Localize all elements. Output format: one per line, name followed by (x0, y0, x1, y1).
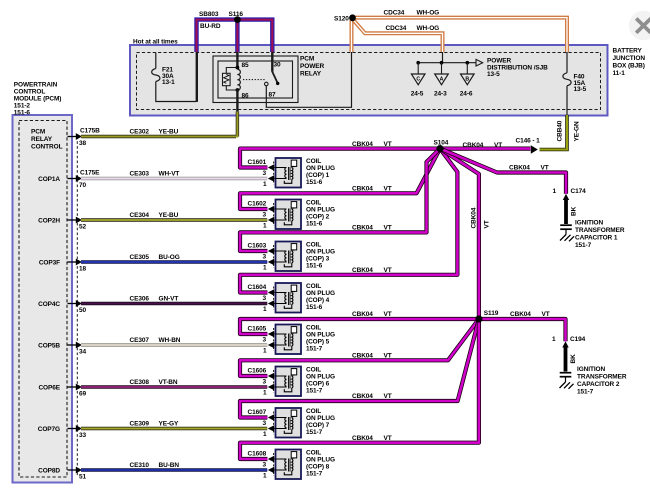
svg-text:CE302: CE302 (130, 129, 150, 136)
label COIL ON PLUG (COP) 7 151-7 (306, 408, 335, 436)
connector C146-1 (531, 145, 538, 154)
svg-text:69: 69 (79, 391, 87, 398)
svg-text:VT: VT (384, 267, 392, 274)
svg-text:1: 1 (552, 188, 556, 195)
PCM pin 51 node COP8D (38, 467, 86, 481)
svg-text:CE304: CE304 (130, 212, 150, 219)
svg-text:BATTERY: BATTERY (613, 48, 643, 55)
wire BK (C194) (564, 347, 568, 372)
label CE304 YE-BU (130, 212, 179, 219)
relay K1 PCM POWER RELAY box (213, 56, 298, 103)
svg-text:52: 52 (79, 224, 87, 231)
svg-text:1: 1 (263, 223, 267, 230)
svg-text:3: 3 (263, 462, 267, 469)
connector C194 (562, 341, 568, 347)
svg-text:3: 3 (263, 254, 267, 261)
label CBK04 VT (COP4 branch) (352, 267, 392, 274)
svg-text:BU-BN: BU-BN (159, 462, 180, 469)
svg-text:C174: C174 (571, 188, 587, 195)
svg-text:IGNITION: IGNITION (577, 366, 605, 373)
svg-text:(COP) 4: (COP) 4 (306, 297, 330, 304)
svg-text:VT-BN: VT-BN (159, 379, 178, 386)
svg-text:24-3: 24-3 (434, 91, 447, 98)
splice S116 (234, 16, 241, 23)
svg-text:CAPACITOR 1: CAPACITOR 1 (575, 235, 618, 242)
svg-text:3: 3 (263, 337, 267, 344)
PCM pin 33 node COP7G (38, 425, 87, 439)
svg-text:PCM: PCM (31, 129, 45, 136)
svg-text:(COP) 8: (COP) 8 (306, 464, 330, 471)
svg-text:151-6: 151-6 (306, 221, 323, 228)
wire CBK04 VT S119 to COP8 (240, 319, 479, 459)
connector C1608 (248, 451, 287, 480)
PCM pin 18 node COP3F (39, 259, 87, 273)
label CE309 YE-GY (130, 421, 179, 428)
svg-text:85: 85 (242, 62, 250, 69)
svg-text:COIL: COIL (306, 242, 321, 249)
svg-text:(COP) 2: (COP) 2 (306, 214, 330, 221)
svg-text:151-6: 151-6 (306, 263, 323, 270)
svg-text:C146 - 1: C146 - 1 (516, 137, 541, 144)
svg-text:24-5: 24-5 (411, 91, 424, 98)
connector C174 (563, 194, 569, 200)
connector C1606 (248, 368, 287, 397)
capacitor ignition transformer capacitor 2 (560, 373, 572, 382)
svg-text:CBK04: CBK04 (352, 186, 373, 193)
svg-text:C: C (416, 76, 420, 82)
svg-text:COP4C: COP4C (38, 301, 60, 308)
svg-text:COIL: COIL (306, 158, 321, 165)
svg-text:WH-BN: WH-BN (159, 337, 181, 344)
svg-text:C1603: C1603 (248, 243, 267, 250)
svg-text:1: 1 (263, 431, 267, 438)
svg-text:C175B: C175B (80, 128, 100, 135)
svg-text:COP7G: COP7G (38, 426, 60, 433)
label CBK04 VT (S104 to C146) (463, 142, 503, 149)
label CE306 GN-VT (130, 296, 179, 303)
svg-text:YE-GN: YE-GN (574, 121, 581, 141)
connector C175 boundary (dashed) (76, 137, 78, 478)
label COIL ON PLUG (COP) 4 151-6 (306, 283, 335, 311)
label POWERTRAIN CONTROL MODULE (PCM) 151-2 151-6 (14, 82, 62, 117)
svg-text:PCM: PCM (300, 55, 314, 62)
svg-text:POWERTRAIN: POWERTRAIN (14, 82, 58, 89)
PCM pin 34 node COP5B (38, 342, 86, 356)
svg-text:YE-GY: YE-GY (159, 421, 179, 428)
label IGNITION TRANSFORMER CAPACITOR 1 151-7 (575, 220, 625, 250)
wire CE309 YE-GY (81, 427, 267, 430)
svg-text:11-1: 11-1 (613, 70, 626, 77)
wire CBK04 VT S119 to COP5 (240, 319, 479, 334)
svg-text:3: 3 (263, 212, 267, 219)
svg-text:C194: C194 (570, 336, 586, 343)
wire F40 feed (in box) (566, 52, 568, 73)
svg-text:70: 70 (79, 182, 87, 189)
svg-text:(COP) 3: (COP) 3 (306, 256, 330, 263)
svg-text:30: 30 (274, 61, 282, 68)
svg-text:CE305: CE305 (130, 254, 150, 261)
svg-text:CE306: CE306 (130, 296, 150, 303)
svg-text:C1602: C1602 (248, 201, 267, 208)
wire S116 to relay pin 30 (in box) (271, 52, 273, 72)
svg-text:ON PLUG: ON PLUG (306, 249, 335, 256)
svg-text:MODULE (PCM): MODULE (PCM) (14, 96, 62, 103)
ignition coil COP 3 (276, 242, 302, 272)
svg-text:COP6E: COP6E (38, 384, 60, 391)
svg-text:C1606: C1606 (248, 368, 267, 375)
svg-text:CBK04: CBK04 (463, 142, 484, 149)
svg-text:BK: BK (570, 354, 577, 364)
svg-text:COIL: COIL (306, 283, 321, 290)
wire CDC34 WH-OG to F40 (352, 18, 568, 52)
label COIL ON PLUG (COP) 3 151-6 (306, 242, 335, 270)
label CBK04 VT (COP3 branch) (352, 225, 392, 232)
svg-text:33: 33 (79, 432, 87, 439)
svg-text:151-7: 151-7 (306, 429, 323, 436)
wire F40 to box edge (in box) (566, 86, 568, 115)
svg-text:POWER: POWER (300, 63, 324, 70)
fuse F21 (152, 69, 160, 82)
svg-text:151-7: 151-7 (577, 389, 594, 396)
svg-text:GN-VT: GN-VT (159, 296, 179, 303)
splice S119 (475, 315, 482, 322)
svg-text:BOX (BJB): BOX (BJB) (613, 63, 645, 70)
label CBK04 VT (COP1 branch) (352, 141, 392, 148)
svg-text:C1608: C1608 (248, 451, 267, 458)
svg-text:1: 1 (263, 348, 267, 355)
svg-text:(COP) 5: (COP) 5 (306, 339, 330, 346)
battery junction box (BJB) outline (130, 45, 608, 116)
label CBK04 VT (S104 to C174) (509, 165, 549, 172)
svg-text:3: 3 (263, 420, 267, 427)
wire CDC34 WH-OG to SJB distribution (353, 19, 443, 52)
svg-text:24-6: 24-6 (460, 91, 473, 98)
svg-text:CDC34: CDC34 (386, 25, 407, 32)
svg-text:151-6: 151-6 (306, 304, 323, 311)
wire CBK04 VT S119 to C194 (479, 319, 566, 341)
svg-text:ON PLUG: ON PLUG (306, 207, 335, 214)
svg-text:151-6: 151-6 (306, 179, 323, 186)
svg-text:ON PLUG: ON PLUG (306, 415, 335, 422)
svg-text:151-6: 151-6 (14, 110, 31, 117)
ignition coil COP 6 (276, 367, 302, 397)
PCM pin 69 node COP6E (38, 384, 86, 398)
svg-text:COP3F: COP3F (39, 259, 60, 266)
wire CBK04 VT S119 to COP7 (240, 319, 479, 418)
svg-text:COIL: COIL (306, 200, 321, 207)
wire F21 to S116 drop (in box) (156, 52, 197, 102)
wire SB803 BU-RD from F21 to relay (197, 20, 273, 52)
svg-text:WH-VT: WH-VT (159, 171, 180, 178)
connector C1602 (248, 201, 287, 230)
wire BK (C174) (564, 200, 568, 225)
wire CBK04 VT S119 to COP6 (240, 319, 479, 376)
ignition coil COP 4 (276, 283, 302, 313)
svg-text:1: 1 (552, 336, 556, 343)
svg-text:RELAY: RELAY (300, 70, 322, 77)
svg-text:CAPACITOR 2: CAPACITOR 2 (577, 381, 620, 388)
splice S104 (436, 145, 443, 152)
connector C1604 (248, 284, 287, 313)
svg-text:(COP) 1: (COP) 1 (306, 172, 330, 179)
svg-text:87: 87 (269, 91, 277, 98)
svg-text:VT: VT (384, 311, 392, 318)
svg-text:3: 3 (263, 170, 267, 177)
wire WH-OG into distribution line (in box) (442, 52, 444, 63)
svg-text:ON PLUG: ON PLUG (306, 290, 335, 297)
capacitor ignition transformer capacitor 1 (560, 225, 572, 234)
svg-text:CBK04: CBK04 (509, 165, 530, 172)
svg-text:CBK04: CBK04 (471, 207, 478, 228)
svg-text:CBK04: CBK04 (352, 267, 373, 274)
svg-text:VT: VT (542, 311, 550, 318)
wire CBK04 VT S104 to COP3 (240, 149, 440, 251)
label CBK04 VT (COP7 branch) (352, 393, 392, 400)
svg-text:VT: VT (384, 141, 392, 148)
label CBK04 VT (COP8 branch) (352, 435, 392, 442)
svg-text:S104: S104 (434, 140, 449, 147)
connector C1607 (248, 409, 287, 438)
svg-text:IGNITION: IGNITION (575, 220, 603, 227)
wire CE307 WH-BN (81, 343, 267, 346)
label COIL ON PLUG (COP) 5 151-7 (306, 325, 335, 353)
wire CBK04 VT S104 to COP2 (240, 149, 440, 209)
svg-text:151-7: 151-7 (306, 471, 323, 478)
svg-text:YE-BU: YE-BU (159, 129, 179, 136)
label COIL ON PLUG (COP) 8 151-7 (306, 450, 335, 478)
wire CE302 YE-BU (81, 112, 237, 138)
label COIL ON PLUG (COP) 2 151-6 (306, 200, 335, 228)
svg-text:VT: VT (384, 225, 392, 232)
PCM pin 50 node COP4C (38, 300, 86, 314)
svg-text:CBK04: CBK04 (352, 225, 373, 232)
svg-text:1: 1 (263, 181, 267, 188)
svg-text:13-5: 13-5 (487, 71, 500, 78)
svg-text:RELAY: RELAY (31, 136, 53, 143)
wire CE308 VT-BN (81, 385, 267, 388)
svg-text:ON PLUG: ON PLUG (306, 457, 335, 464)
label CBK04 VT (S119 to C194) (510, 311, 550, 318)
ignition coil COP 7 (276, 408, 302, 438)
svg-text:(COP) 6: (COP) 6 (306, 381, 330, 388)
PCM pin 70 node COP1A (38, 170, 100, 190)
svg-text:CBK04: CBK04 (352, 141, 373, 148)
label F21 30A 13-1 (162, 67, 175, 87)
svg-text:CBB40: CBB40 (557, 120, 564, 141)
label CE308 VT-BN (130, 379, 178, 386)
label CE305 BU-OG (130, 254, 180, 261)
svg-text:VT: VT (541, 165, 549, 172)
ignition coil COP 1 (276, 158, 302, 188)
svg-text:34: 34 (79, 349, 87, 356)
wire WH-OG relay 87 up to S120 (350, 18, 354, 52)
wire CBK04 VT S104 to COP4 (240, 149, 457, 293)
wire relay 86 to box edge (in box) (236, 90, 238, 112)
svg-text:CBK04: CBK04 (352, 393, 373, 400)
svg-text:BK: BK (571, 206, 578, 216)
svg-text:TRANSFORMER: TRANSFORMER (575, 227, 625, 234)
relay coil (pins 85-86) (236, 66, 241, 92)
svg-text:COIL: COIL (306, 450, 321, 457)
label: BATTERY JUNCTION BOX (BJB) 11-1 (613, 48, 646, 78)
svg-text:C1604: C1604 (248, 284, 267, 291)
PCM module box (13, 115, 73, 483)
label CE307 WH-BN (130, 337, 181, 344)
ground (capacitor 1) (560, 235, 574, 242)
svg-text:BU-RD: BU-RD (200, 23, 221, 30)
svg-text:COP1A: COP1A (38, 176, 60, 183)
label IGNITION TRANSFORMER CAPACITOR 2 151-7 (577, 366, 627, 396)
svg-text:51: 51 (79, 474, 87, 481)
svg-text:CE307: CE307 (130, 337, 150, 344)
label PCM RELAY CONTROL (31, 129, 63, 151)
wire CE305 BU-OG (81, 260, 267, 263)
svg-text:C175E: C175E (80, 170, 100, 177)
wire CBB40 YE-GN F40 to C146 (540, 115, 568, 150)
label F40 15A 13-5 (574, 74, 587, 94)
svg-text:C1605: C1605 (248, 326, 267, 333)
svg-text:VT: VT (494, 142, 502, 149)
svg-text:C1607: C1607 (248, 409, 267, 416)
label COIL ON PLUG (COP) 1 151-6 (306, 158, 335, 186)
splice S120 (349, 14, 356, 21)
svg-text:38: 38 (79, 140, 87, 147)
svg-text:151-7: 151-7 (306, 388, 323, 395)
svg-text:CBK04: CBK04 (510, 311, 531, 318)
svg-text:CE303: CE303 (130, 171, 150, 178)
svg-text:COIL: COIL (306, 408, 321, 415)
wire CBK04 VT S104 to COP1 (240, 149, 440, 168)
svg-text:B: B (465, 76, 469, 82)
svg-text:S119: S119 (484, 310, 499, 317)
ignition coil COP 8 (276, 450, 302, 480)
svg-text:1: 1 (263, 473, 267, 480)
resistor (relay suppression) (223, 68, 238, 91)
close button X (629, 11, 650, 40)
wire S116 to relay pin 85 (in box) (236, 52, 238, 68)
svg-text:COP2H: COP2H (38, 217, 60, 224)
connector C1603 (248, 243, 287, 272)
svg-text:S120: S120 (334, 15, 349, 22)
label CDC34 WH-OG (top) (384, 10, 440, 17)
svg-text:CONTROL: CONTROL (14, 89, 46, 96)
fuse F40 (563, 73, 571, 86)
connector C1605 (248, 326, 287, 355)
label CE310 BU-BN (130, 462, 180, 469)
svg-text:VT: VT (384, 435, 392, 442)
ignition coil COP 5 (276, 325, 302, 355)
svg-text:(COP) 7: (COP) 7 (306, 422, 330, 429)
svg-text:CE310: CE310 (130, 462, 150, 469)
wire CE303 WH-VT (81, 177, 267, 180)
svg-text:13-1: 13-1 (162, 79, 175, 86)
connector C1601 (248, 159, 287, 188)
svg-text:COP5B: COP5B (38, 342, 60, 349)
svg-text:CE308: CE308 (130, 379, 150, 386)
wire CE310 BU-BN (81, 468, 267, 471)
label CE302 YE-BU (130, 129, 179, 136)
svg-text:COIL: COIL (306, 367, 321, 374)
label POWER DISTRIBUTION /SJB 13-5 (487, 58, 548, 78)
svg-text:VT: VT (384, 353, 392, 360)
svg-text:A: A (440, 76, 444, 82)
svg-text:TRANSFORMER: TRANSFORMER (577, 374, 627, 381)
svg-text:WH-OG: WH-OG (417, 10, 440, 17)
wire CBK04 VT S104 to C174 (440, 149, 566, 194)
svg-text:VT: VT (384, 186, 392, 193)
svg-text:COP8D: COP8D (38, 467, 60, 474)
PCM pin 52 node COP2H (38, 217, 86, 231)
svg-text:CE309: CE309 (130, 421, 150, 428)
label CBK04 VT (COP5 branch) (352, 311, 392, 318)
svg-text:BU-OG: BU-OG (159, 254, 180, 261)
svg-text:151-7: 151-7 (306, 346, 323, 353)
svg-text:ON PLUG: ON PLUG (306, 332, 335, 339)
svg-text:13-5: 13-5 (574, 86, 587, 93)
svg-text:VT: VT (384, 393, 392, 400)
power distribution /SJB bus (418, 59, 483, 66)
wire battery feed to F21 (in box) (155, 53, 157, 69)
svg-text:18: 18 (79, 266, 87, 273)
label COIL ON PLUG (COP) 6 151-7 (306, 367, 335, 395)
svg-text:S116: S116 (229, 11, 244, 18)
svg-text:3: 3 (263, 379, 267, 386)
svg-text:CDC34: CDC34 (384, 10, 405, 17)
svg-text:WH-OG: WH-OG (417, 25, 440, 32)
svg-text:ON PLUG: ON PLUG (306, 374, 335, 381)
svg-text:JUNCTION: JUNCTION (613, 55, 646, 62)
wire CE306 GN-VT (81, 302, 267, 305)
svg-text:Hot at all times: Hot at all times (133, 39, 178, 46)
label CBK04 VT (COP2 branch) (352, 186, 392, 193)
svg-text:3: 3 (263, 295, 267, 302)
svg-text:SB803: SB803 (199, 11, 219, 18)
svg-text:ON PLUG: ON PLUG (306, 165, 335, 172)
label PCM POWER RELAY (300, 55, 324, 77)
svg-text:COIL: COIL (306, 325, 321, 332)
svg-text:CBK04: CBK04 (352, 435, 373, 442)
ground (capacitor 2) (560, 382, 574, 389)
svg-text:VT: VT (484, 220, 491, 228)
svg-text:CONTROL: CONTROL (31, 144, 63, 151)
wire relay 87 to S120 (in box) (266, 52, 351, 107)
wire CE304 YE-BU (81, 218, 267, 221)
svg-text:50: 50 (79, 307, 87, 314)
wire CBK04 VT S104 to S119 (440, 149, 479, 319)
svg-text:1: 1 (263, 306, 267, 313)
PCM pin 38 (relay control) (68, 128, 101, 148)
svg-text:1: 1 (263, 390, 267, 397)
label CBK04 VT (COP6 branch) (352, 353, 392, 360)
svg-text:151-2: 151-2 (14, 103, 31, 110)
svg-text:151-7: 151-7 (575, 242, 592, 249)
svg-text:1: 1 (263, 265, 267, 272)
ignition coil COP 2 (276, 200, 302, 230)
label CE303 WH-VT (130, 171, 180, 178)
svg-text:C1601: C1601 (248, 159, 267, 166)
wire CBK04 VT S104 to C146 (440, 147, 531, 151)
svg-text:86: 86 (242, 93, 250, 100)
svg-text:CBK04: CBK04 (352, 353, 373, 360)
svg-text:CBK04: CBK04 (352, 311, 373, 318)
label CDC34 WH-OG (branch) (386, 25, 440, 32)
svg-text:YE-BU: YE-BU (159, 212, 179, 219)
relay switch (pins 30-87) (243, 72, 279, 86)
